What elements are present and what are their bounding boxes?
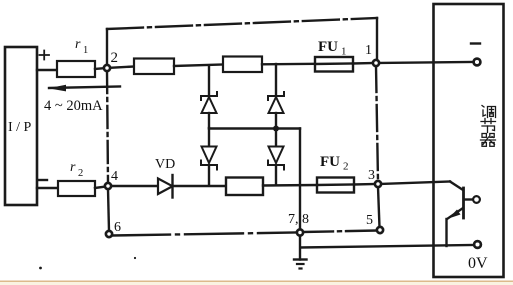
node 4 xyxy=(105,183,111,189)
svg-text:r: r xyxy=(70,160,76,175)
lower rail node6 to node7,8 (dash-dot) xyxy=(112,233,296,236)
svg-text:I / P: I / P xyxy=(8,120,32,135)
base bar xyxy=(462,188,465,218)
vertical wire from middle wire down to node 7,8 (crosses bottom rail) xyxy=(299,129,301,230)
zener Z3 triangle xyxy=(269,97,284,113)
svg-text:VD: VD xyxy=(155,157,175,172)
wire resistor C to fuse FU2 xyxy=(263,184,317,187)
node 6 xyxy=(106,231,112,237)
dash-dot vertical node1 to node3 xyxy=(376,66,378,181)
zener Z1 triangle xyxy=(202,97,217,113)
fuse FU1 xyxy=(315,57,353,72)
current arrow 4~20mA xyxy=(49,87,120,89)
wire r2 to node 4 xyxy=(95,187,106,189)
vertical node3 to node5 xyxy=(378,187,380,227)
minus sign above regulator terminal xyxy=(471,42,480,44)
wire node7,8 down to ground xyxy=(299,235,301,260)
zener Z2 triangle xyxy=(208,128,210,147)
node 1 xyxy=(373,60,379,66)
dash-dot vertical node2 to node4 xyxy=(107,71,108,183)
wire resistor A to resistor B xyxy=(174,65,223,67)
svg-text:1: 1 xyxy=(365,43,372,58)
resistor B (top, right) xyxy=(223,57,262,73)
zener Z1 cathode bar xyxy=(201,92,217,100)
minus terminal of regulator xyxy=(474,59,481,66)
node 2 xyxy=(104,65,110,71)
svg-text:1: 1 xyxy=(341,46,347,58)
ground symbol xyxy=(294,258,307,260)
svg-text:FU: FU xyxy=(318,39,338,55)
svg-text:FU: FU xyxy=(320,154,340,170)
svg-text:2: 2 xyxy=(78,168,83,179)
resistor r2 xyxy=(58,181,95,196)
zener Z4 cathode bar xyxy=(268,161,284,170)
regulator box (调节器) xyxy=(434,4,504,277)
protection branch 2 (right pair of zener diodes) x~276 xyxy=(275,64,277,95)
label 调节器 drawn as strokes xyxy=(481,106,496,147)
svg-text:4: 4 xyxy=(111,169,118,184)
wire FU2 to node 3 xyxy=(354,183,376,186)
char 调 xyxy=(482,106,496,118)
lead from bar to open terminal xyxy=(464,198,473,200)
wire node 4 to diode VD xyxy=(108,185,158,187)
emitter down to 0V rail xyxy=(445,219,447,246)
svg-text:7, 8: 7, 8 xyxy=(288,212,309,227)
wire VD to resistor C xyxy=(172,185,226,187)
wire node 2 to resistor A xyxy=(107,67,134,69)
wire FU1 to node 1 xyxy=(353,62,375,65)
0V terminal of regulator xyxy=(474,241,481,248)
char 节 xyxy=(481,119,496,133)
node 7,8 xyxy=(297,229,303,235)
svg-text:r: r xyxy=(75,37,81,52)
collector angled lead xyxy=(450,182,463,191)
wire resistor B to fuse FU1 xyxy=(262,63,315,66)
fuse FU2 xyxy=(317,178,354,193)
zener Z2 cathode bar xyxy=(201,161,217,170)
zener Z4 triangle xyxy=(275,128,277,147)
node 5 xyxy=(377,227,383,233)
resistor r1 xyxy=(57,61,95,77)
bottom scan strip xyxy=(0,281,513,283)
bypass wire node2 up xyxy=(106,29,108,66)
wire r1 to node 2 xyxy=(95,68,106,69)
resistor C (bottom) xyxy=(226,178,263,196)
emitter lead with arrow xyxy=(447,208,463,219)
junction dot on branch 2 xyxy=(273,126,279,132)
lower rail node7,8 to node5 (dash-dot) xyxy=(303,231,377,233)
bypass wire down to node 1 xyxy=(376,18,378,60)
svg-text:4 ~ 20mA: 4 ~ 20mA xyxy=(44,98,103,114)
middle wire joining zener branches xyxy=(209,127,300,129)
resistor A (top, left) xyxy=(134,59,174,75)
svg-text:5: 5 xyxy=(366,213,373,228)
svg-text:6: 6 xyxy=(114,220,121,235)
wire node 3 into regulator box (transistor collector) xyxy=(379,182,450,185)
wire node 1 to minus terminal xyxy=(377,62,473,63)
diode VD xyxy=(158,179,173,195)
char 器 xyxy=(481,134,496,147)
protection branch 1 (left pair of zener diodes) x~209 xyxy=(208,66,210,95)
speck xyxy=(39,267,42,270)
wire - terminal of I/P to r2 xyxy=(37,187,58,189)
bypass wire top (dash-dot) xyxy=(107,18,377,29)
ground branch wire to 0V terminal xyxy=(301,245,475,248)
svg-text:0V: 0V xyxy=(468,255,488,272)
svg-text:1: 1 xyxy=(83,45,88,56)
minus sign at I/P bottom xyxy=(38,179,47,181)
svg-text:3: 3 xyxy=(368,168,375,183)
svg-text:2: 2 xyxy=(343,161,349,173)
wire + terminal of I/P to r1 xyxy=(37,69,57,71)
I/P converter box xyxy=(5,47,37,205)
svg-text:2: 2 xyxy=(111,50,119,66)
node 3 xyxy=(375,181,381,187)
zener Z3 cathode bar xyxy=(268,92,284,100)
plus sign at I/P top xyxy=(40,51,50,60)
vertical node4 to node6 xyxy=(108,189,109,231)
